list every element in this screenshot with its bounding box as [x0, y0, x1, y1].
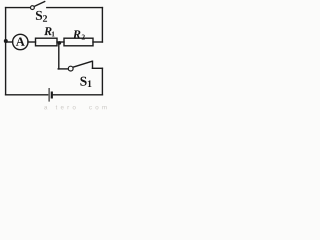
wire lower-right vertical [101, 68, 103, 95]
wire battery to bottom-right [53, 94, 103, 96]
wire middle branch left [6, 41, 13, 43]
switch S2 label S [36, 11, 42, 20]
wire R2 to right vertical [93, 41, 102, 43]
wire S1 terminal to lower-right vertical [93, 67, 103, 69]
node junction dot between R1 and R2 [58, 41, 62, 45]
wire top-right segment [47, 7, 103, 9]
switch S1 blade [73, 61, 92, 67]
ammeter A1 letter [16, 37, 25, 45]
wire upper-right vertical [101, 8, 103, 42]
wire left vertical [5, 8, 7, 95]
resistor R1 label subscript 1 [52, 32, 55, 37]
watermark text [44, 105, 106, 109]
resistor R1 label R [44, 27, 52, 35]
resistor R1 box [36, 38, 58, 46]
switch S1 label S [80, 77, 86, 86]
wire ammeter to R1 [28, 41, 36, 43]
ammeter A1 circle [13, 34, 28, 49]
resistor R2 label subscript 2 [82, 35, 85, 40]
switch S1 pivot circle [68, 66, 73, 71]
switch S2 blade [34, 1, 45, 6]
battery cell long thin plate [48, 88, 50, 102]
wire S1 horizontal [58, 68, 68, 70]
node junction dot left (wire to ammeter tap) [4, 39, 8, 43]
wire S1 terminal hook [92, 61, 94, 68]
switch S2 pivot circle [31, 6, 35, 10]
resistor R2 box [64, 38, 93, 46]
switch S2 label subscript 2 [43, 15, 47, 22]
wire R1 to R2 [57, 41, 64, 43]
battery cell short thick plate [51, 92, 53, 99]
resistor R2 label R [73, 30, 81, 38]
wire S1 stub vertical [58, 43, 60, 69]
wire top-left segment [6, 7, 31, 9]
wire bottom-left to battery [6, 94, 48, 96]
switch S1 label subscript 1 [88, 80, 92, 87]
